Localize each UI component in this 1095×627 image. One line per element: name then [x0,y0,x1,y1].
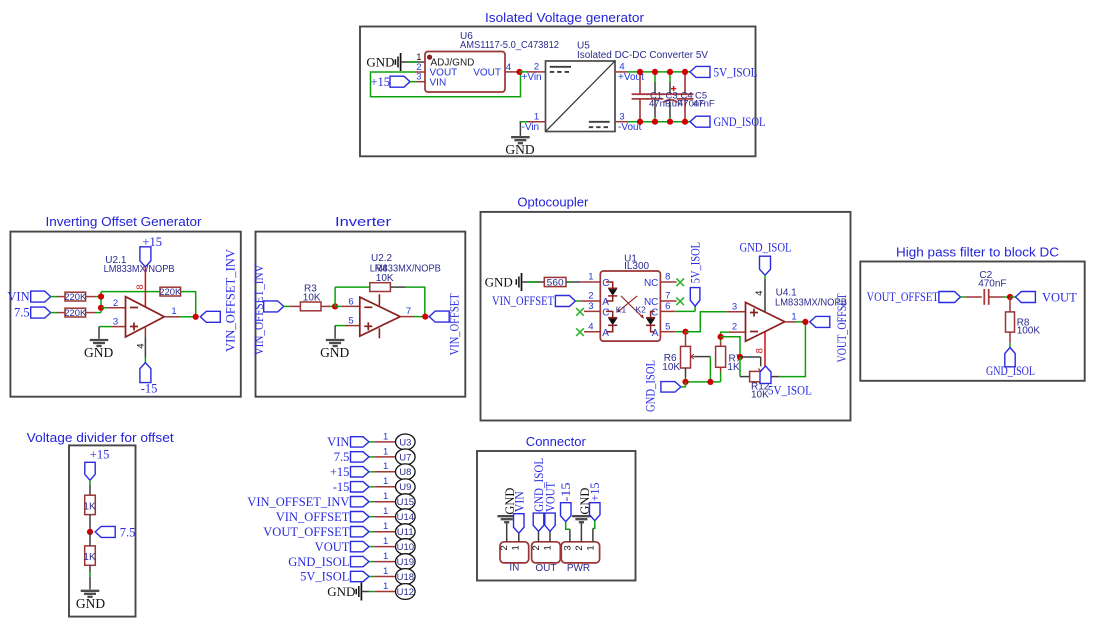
svg-text:1: 1 [383,461,388,472]
svg-text:470nF: 470nF [978,278,1006,289]
U1 pin 3 stub [584,310,600,312]
wire node vertical to feedback [334,287,336,306]
resistor R7 1K [716,346,726,367]
wire junction to U5 pin 2 [520,71,528,73]
section frame Voltage divider [69,445,136,616]
U5 pin 3 stub [615,121,628,123]
svg-text:VIN: VIN [327,435,349,449]
global label VIN_OFFSET_INV (test point) [351,497,370,507]
svg-text:3: 3 [113,317,118,328]
global label +15 (divider) [85,462,95,480]
global label 5V_ISOL [690,66,710,77]
capacitor C4 plus mark [671,88,676,90]
wire to test point U8 [369,471,374,473]
wire node to op-amp pin 2 [101,307,108,309]
svg-text:7: 7 [665,291,670,302]
ground at IN pin 2 [497,515,516,517]
svg-text:1: 1 [383,491,388,502]
svg-text:-15: -15 [141,382,158,396]
svg-text:LM833MX/NOPB: LM833MX/NOPB [104,264,175,275]
section frame Isolated Voltage generator [360,27,756,157]
U5 DC mark top-left [550,66,571,68]
svg-text:GND: GND [76,596,105,611]
wire feedback left [101,291,160,293]
svg-text:IL300: IL300 [624,261,649,272]
ground at U2.2 pin 5 [334,326,336,339]
svg-text:GND_ISOL: GND_ISOL [740,240,792,254]
svg-text:U15: U15 [397,497,414,508]
section frame Inverter [256,232,466,397]
capacitor C2 [983,289,985,305]
ground under U5 [511,136,530,138]
svg-text:IN: IN [509,563,519,574]
junction output node [193,314,199,320]
svg-text:3: 3 [562,545,573,550]
svg-text:+15: +15 [330,465,350,479]
wire GND flag to R9 [522,281,545,283]
no-connect X at U1 pin 3 [576,308,584,316]
test point U8 [396,464,416,480]
svg-text:3: 3 [416,72,421,83]
global label VOUT (test point) [351,541,370,551]
global label VIN (IN pin1) [514,514,525,534]
no-connect X at U1 pin 4 [576,328,584,336]
resistor R6 10K (pot) [681,346,691,368]
wire -15 to PWR pin 3 [566,522,570,530]
svg-text:2: 2 [574,545,585,550]
svg-text:220K: 220K [159,287,182,298]
svg-text:1: 1 [585,545,596,550]
connector OUT pin 1 wire [549,531,551,542]
svg-text:1: 1 [383,506,388,517]
wire to test point U7 [369,456,374,458]
svg-text:VIN_OFFSET: VIN_OFFSET [276,510,350,524]
global label 5V_ISOL (U4.1 power) [760,366,771,383]
no-connect X at U1 pin 7 [676,298,684,306]
svg-text:100K: 100K [1017,326,1041,337]
svg-text:1: 1 [171,306,176,317]
op-amp U2.1 [126,297,165,337]
wire +15 to U6 pin 3 [410,81,417,83]
svg-text:GND_ISOL: GND_ISOL [714,115,766,129]
wire to test point U12 [369,591,374,593]
wire feedback right [390,286,405,288]
wire to test point U19 [369,561,374,563]
svg-text:7: 7 [406,306,411,317]
global label GND_ISOL [690,116,710,127]
junction node/R1 [98,294,104,300]
wire R10 to node [89,515,91,532]
R7 bottom stub [720,367,722,372]
svg-text:3: 3 [588,301,593,312]
test point U18 [396,569,416,585]
svg-text:1: 1 [383,551,388,562]
svg-text:2: 2 [531,545,542,550]
svg-text:U9: U9 [399,482,411,493]
svg-text:VOUT: VOUT [315,540,350,554]
svg-text:1: 1 [383,446,388,457]
global label VIN_OFFSET (output) [429,311,449,322]
svg-text:10K: 10K [303,293,321,304]
U1 pin 7 stub [660,300,676,302]
capacitor C4 pins [669,72,671,82]
svg-text:7.5: 7.5 [14,306,30,320]
svg-text:220K: 220K [64,292,87,303]
wire +Vout rail [628,71,690,73]
global label VIN [31,291,51,302]
svg-text:GND: GND [320,345,349,360]
svg-text:2: 2 [534,62,539,73]
wire VOUT_OFFSET to C2 [961,296,967,298]
U1 pin 2 stub [580,300,600,302]
wire node to R11 [89,532,91,546]
svg-text:1: 1 [383,566,388,577]
svg-text:A: A [602,328,609,339]
junction C2/R8/VOUT [1007,294,1013,300]
svg-text:PWR: PWR [567,563,590,574]
test point U9 [396,479,416,495]
junction -Vout/C3 [652,119,658,125]
svg-text:VIN_OFFSET: VIN_OFFSET [447,293,461,355]
global label VIN_OFFSET_INV (input) [264,301,284,312]
resistor R11 1K [85,546,96,565]
R6 wiper arrow [693,356,696,358]
power flag GND (U6 pin1) [400,53,402,71]
svg-text:3: 3 [732,301,737,312]
junction +Vout/C3 [652,69,658,75]
svg-text:OUT: OUT [535,563,556,574]
svg-text:+Vin: +Vin [522,72,542,83]
wire U5 -Vin to ground [520,121,528,123]
test point U11 [396,524,416,540]
svg-text:10K: 10K [376,273,394,284]
wire node to VOUT [1010,296,1015,298]
svg-text:+15: +15 [142,235,162,249]
svg-text:VIN: VIN [430,77,447,88]
U4.1 pin 8 wire [764,332,766,367]
wire +15 to pin 8 [144,267,146,307]
svg-text:Isolated DC-DC Converter 5V: Isolated DC-DC Converter 5V [577,50,708,61]
svg-text:U7: U7 [399,452,411,463]
junction node/R3 [332,303,338,309]
svg-text:K1: K1 [616,305,627,315]
section frame Inverting Offset Generator [10,232,240,397]
svg-text:VIN: VIN [513,491,527,512]
connector OUT body [532,542,561,563]
wire branch to R12 left [739,357,741,377]
junction output node [802,319,808,325]
svg-text:4: 4 [619,62,624,73]
wire R9 to U1 pin 1 [566,281,580,283]
wire branch to R12 wiper [740,356,761,358]
svg-text:7.5: 7.5 [120,525,136,539]
global label +15 (PWR pin1) [590,503,601,521]
svg-text:-Vin: -Vin [522,122,540,133]
wire op-amp pin 2 to node [729,331,746,333]
svg-text:+15: +15 [370,75,390,89]
U1 coupling arrow K1 [618,296,637,311]
U2.1 pin 4 wire [144,328,146,337]
svg-text:Connector: Connector [526,434,587,449]
svg-text:5: 5 [348,316,353,327]
wire C2 to node [989,296,1004,298]
U1 photodiode K2 [651,311,655,317]
junction divider node [87,529,93,535]
capacitor C5 plates [677,93,694,95]
svg-text:220K: 220K [64,308,87,319]
power flag GND (opto input) [521,273,523,291]
svg-text:3: 3 [619,112,624,123]
wire +15 to PWR pin 1 [593,521,595,529]
svg-text:6: 6 [348,297,353,308]
svg-text:U3: U3 [399,437,411,448]
svg-text:47nF: 47nF [693,99,715,110]
wire R12 right to output [770,376,779,378]
svg-text:4: 4 [136,343,147,348]
resistor R10 1K [85,495,96,514]
svg-text:VOUT_OFFSET: VOUT_OFFSET [263,525,349,539]
svg-text:U18: U18 [397,572,414,583]
junction rail/R6 [682,379,688,385]
connector IN body [500,542,529,563]
ground (divider) [81,590,100,592]
junction output node [422,314,428,320]
svg-text:GND: GND [327,584,355,599]
svg-text:Inverter: Inverter [335,214,392,229]
svg-text:1: 1 [511,545,522,550]
svg-text:AMS1117-5.0_C473812: AMS1117-5.0_C473812 [460,40,559,51]
wire R11 to ground [89,565,91,572]
wire U6 VOUT loop [371,72,521,97]
svg-text:U8: U8 [399,467,411,478]
global label -15 (test point) [351,482,370,492]
wire to test point U18 [369,576,374,578]
U1 pin 5 stub [660,331,675,333]
svg-text:Inverting Offset Generator: Inverting Offset Generator [46,214,203,229]
wire node to op-amp pin 6 [335,305,342,307]
wire input node vertical [100,292,102,313]
power flag GND (test point) [360,583,362,601]
wire feedback right [181,292,196,317]
ground at U2.1 pin 3 [98,327,100,339]
svg-text:2: 2 [732,322,737,333]
resistor R3 10K [300,302,321,311]
R6 top stub [685,332,687,347]
svg-text:1: 1 [791,311,796,322]
svg-text:5V_ISOL: 5V_ISOL [688,242,702,284]
wire R2 to node [86,312,95,314]
resistor R1 220K [65,292,86,301]
svg-text:8: 8 [665,272,670,283]
wire to test point U14 [369,516,374,518]
svg-text:10K: 10K [662,362,680,373]
junction pin2 node [718,334,724,340]
capacitor C3 pins [654,72,656,82]
wire GND flag to U12 [361,591,369,593]
U1 coupling arrow K2 [621,296,643,317]
U5 pin 1 stub [526,121,546,123]
connector IN pin 2 wire [506,523,508,542]
junction at U6 VOUT / U5 +Vin [516,69,522,75]
svg-text:5V_ISOL: 5V_ISOL [714,65,758,79]
global label +15 [390,76,410,87]
U5 diagonal [546,61,616,132]
svg-text:5V_ISOL: 5V_ISOL [300,570,349,584]
junction +Vout/C5 [682,69,688,75]
svg-text:1: 1 [543,545,554,550]
section frame Connector [477,451,636,581]
resistor R9 560 [544,277,566,286]
svg-text:+15: +15 [90,447,110,461]
R6 bottom stub [685,368,687,377]
junction pin5/R6 [682,329,688,335]
junction -Vout/C4 [667,119,673,125]
wire label to R3 [284,305,290,307]
svg-text:1: 1 [383,431,388,442]
U6 pin 4 stub [505,71,520,73]
R12 wiper arrow [758,369,763,372]
junction rail/wiper [707,379,713,385]
connector OUT pin 2 wire [538,531,540,542]
wire feedback left [335,286,370,288]
wire -Vout rail [628,121,690,123]
svg-text:U11: U11 [397,527,414,538]
U6 pin 2 stub [415,71,425,73]
svg-text:U2.2: U2.2 [371,253,393,264]
svg-text:VIN: VIN [7,290,29,304]
regulator U6 body [425,52,505,93]
svg-text:1: 1 [588,272,593,283]
op-amp U2.2 output pin [400,316,414,318]
wire node to op-amp pin 3 [686,312,727,332]
global label 7.5 (test point) [351,452,370,462]
wire to test point U11 [369,531,374,533]
svg-text:560: 560 [547,277,564,288]
svg-text:U10: U10 [397,542,414,553]
no-connect X at U1 pin 8 [676,279,684,287]
svg-text:1: 1 [383,521,388,532]
svg-text:-15: -15 [559,483,573,502]
global label GND_ISOL (U4.1 power) [760,256,771,275]
op-amp U4.1 [746,302,785,341]
svg-text:NC: NC [644,297,658,308]
resistor R2 220K [65,308,86,317]
test point U14 [396,509,416,525]
global label +15 (test point) [351,467,370,477]
global label 5V_ISOL (opto) [690,288,700,307]
svg-text:VOUT: VOUT [1042,290,1077,304]
global label VOUT [1015,292,1035,303]
U1 pin 1 stub [580,281,600,283]
global label VOUT_OFFSET (test point) [351,527,370,537]
global label GND_ISOL (OUT pin2) [533,513,544,531]
wire U1 pin 5 to node [675,331,685,333]
svg-text:1K: 1K [727,362,740,373]
capacitor C5 pins [684,72,686,94]
svg-text:Optocoupler: Optocoupler [517,195,589,210]
resistor R8 100K [1006,312,1015,332]
global label 5V_ISOL (test point) [351,571,370,581]
optocoupler U1 body [600,271,660,341]
svg-text:GND_ISOL: GND_ISOL [644,360,658,412]
svg-text:1: 1 [383,536,388,547]
svg-text:8: 8 [135,284,146,289]
op-amp U4.1 output pin [785,321,796,323]
test point U7 [396,449,416,465]
svg-text:GND: GND [84,345,113,360]
svg-text:VOUT: VOUT [544,482,558,512]
svg-text:1: 1 [383,476,388,487]
svg-text:4: 4 [754,291,765,296]
svg-text:1K: 1K [83,501,96,512]
wire +15 to R10 [89,480,91,484]
op-amp U2.1 output pin [164,316,180,318]
global label GND_ISOL (filter) [1005,348,1015,367]
svg-text:VIN_OFFSET_INV: VIN_OFFSET_INV [223,249,237,352]
junction +Vout/C1 [637,69,643,75]
global label -15 (PWR pin3) [561,503,572,522]
svg-text:-15: -15 [333,480,350,494]
wire VIN to R1 [51,296,57,298]
svg-text:10K: 10K [751,390,769,401]
svg-text:2: 2 [499,545,510,550]
junction -Vout/C1 [637,119,643,125]
wire ground to op-amp pin 3 [99,326,111,328]
wire R1 to node [86,296,95,298]
global label VIN (test point) [351,437,370,447]
resistor R5 220K (feedback) [160,287,181,296]
svg-text:1K: 1K [83,552,96,563]
capacitor C4 plates (polarized) [662,93,679,95]
wire to test point U9 [369,486,374,488]
capacitor C3 plates [647,93,664,95]
R8 top stub [1009,297,1011,312]
svg-text:Isolated Voltage generator: Isolated Voltage generator [485,10,645,25]
svg-text:GND_ISOL: GND_ISOL [288,555,349,569]
test point U19 [396,554,416,570]
U1 photodiode K1 [606,311,613,317]
R8 bottom stub [1009,332,1011,343]
svg-text:2: 2 [113,298,118,309]
junction node/pin2 [98,305,104,311]
svg-text:2: 2 [588,291,593,302]
wire GND flag to U6 pin 1 [401,61,425,63]
test point U12 [396,584,416,600]
junction -Vout/C5 [682,119,688,125]
svg-text:Voltage divider for offset: Voltage divider for offset [27,430,174,445]
svg-text:U19: U19 [397,557,414,568]
svg-text:VIN_OFFSET: VIN_OFFSET [492,294,554,308]
global label 7.5 [31,307,51,318]
svg-text:High pass filter to block DC: High pass filter to block DC [896,244,1059,259]
U2.2 pin 4 stub [378,328,380,338]
resistor R12 10K (trimmer) [750,371,771,381]
svg-text:GND: GND [505,142,534,157]
svg-text:U12: U12 [397,587,414,598]
section frame High pass filter [860,262,1084,381]
U1 LED (input diode) [606,282,613,288]
DC-DC converter U5 body [546,61,616,132]
U1 pin 4 stub [584,331,600,333]
connector PWR pin 2 wire [580,523,582,542]
wire VIN_OFFSET to U1 pin 2 [575,300,580,302]
wire ground to op-amp pin 5 [335,325,345,327]
U5 pin 4 stub [615,71,628,73]
U1 pin 8 stub [660,281,676,283]
svg-text:GND_ISOL: GND_ISOL [986,364,1035,378]
R7 top stub [720,342,722,347]
ground at PWR pin 2 [572,515,591,517]
